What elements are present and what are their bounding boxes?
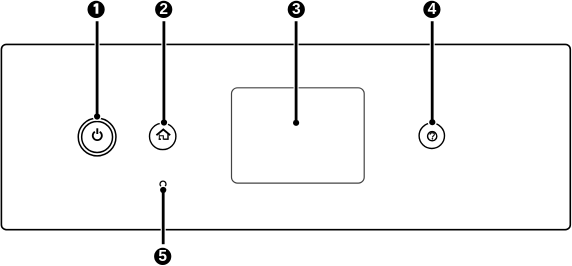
leader line 3 [295,21,298,123]
leader dot 5 [160,187,166,193]
leader line 1 [96,21,99,116]
leader dot 2 [161,119,167,125]
leader dot 4 [429,119,435,125]
help icon question mark [430,133,434,138]
leader line casings (white halos) [97,21,432,244]
dot halos [93,112,437,195]
callout 4 [423,1,440,18]
leader dot 3 [293,120,299,126]
leader line 2 [162,21,165,122]
LCD screen [232,88,365,183]
power button inner ring [82,122,113,153]
svg-text:5: 5 [158,248,167,265]
callout 1 [88,1,105,18]
leader line 4 [431,21,434,122]
power light [160,181,166,187]
power button outer ring [78,118,116,156]
help button circle [419,123,444,148]
callout 5 [154,248,171,265]
svg-text:2: 2 [159,1,168,18]
svg-text:3: 3 [292,1,301,18]
control panel outline [1,44,570,229]
leader line 5 [162,190,165,244]
power icon [93,128,102,140]
help icon circle [428,132,437,141]
leader dot 1 [94,113,100,119]
callout 3 [288,1,305,18]
home button circle [150,123,176,149]
callout 2 [155,1,172,18]
home icon [156,130,170,140]
svg-text:4: 4 [428,1,437,18]
